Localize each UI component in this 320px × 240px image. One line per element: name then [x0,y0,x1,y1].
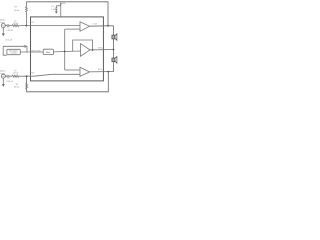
svg-text:50 kΩ: 50 kΩ [14,9,20,12]
svg-text:CB 1 µF: CB 1 µF [5,39,13,41]
svg-text:0.33 µF: 0.33 µF [6,81,14,83]
svg-text:Input: Input [0,21,5,24]
svg-text:10 kΩ: 10 kΩ [13,72,19,75]
svg-text:RF: RF [15,6,17,8]
svg-text:Bias: Bias [46,52,50,54]
svg-text:0.33 µF: 0.33 µF [6,30,14,32]
svg-text:10 kΩ: 10 kΩ [13,22,19,25]
svg-text:Input: Input [0,72,5,75]
svg-text:SHUTDOWN: SHUTDOWN [31,51,42,53]
svg-text:VGND: VGND [98,48,104,50]
svg-text:Control: Control [11,52,18,55]
svg-text:ROUT: ROUT [98,69,103,71]
svg-text:50 kΩ: 50 kΩ [14,86,20,89]
svg-text:LOUT: LOUT [93,24,98,26]
